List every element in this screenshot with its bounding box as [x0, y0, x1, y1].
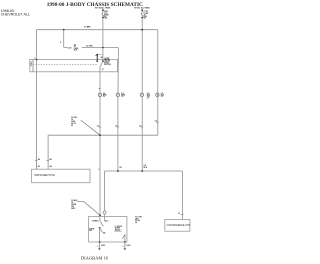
svg-text:C2: C2 [103, 96, 105, 98]
label horn switch [89, 229, 95, 233]
label line3 wire [144, 165, 148, 169]
node feed1 lower dot [102, 17, 104, 19]
relay feed segment [102, 48, 104, 62]
svg-text:B4: B4 [49, 158, 51, 161]
tick line2 C200 [117, 126, 120, 128]
svg-text:8: 8 [34, 58, 35, 60]
svg-text:HOT AT ALL TIMES: HOT AT ALL TIMES [95, 7, 111, 10]
svg-text:B4: B4 [144, 17, 146, 20]
svg-text:C2: C2 [147, 97, 149, 99]
wire switch to ground left [99, 228, 101, 242]
switch contact stub A [99, 216, 101, 220]
relay coil top link [97, 54, 103, 56]
svg-text:86: 86 [101, 57, 103, 59]
wire mid rail y47 [82, 47, 119, 49]
label connector line2 [121, 93, 125, 98]
svg-text:C2: C2 [115, 125, 117, 127]
node switch dot [99, 227, 101, 229]
connector circle line3 [140, 93, 143, 96]
svg-text:CONVENIENCE CTR: CONVENIENCE CTR [167, 224, 191, 227]
connector circle line2 [116, 93, 119, 96]
fuse F1 [102, 13, 104, 17]
relay switch arm [100, 61, 103, 67]
instrument panel fuse block box [33, 59, 117, 71]
node feed1 top dot [102, 9, 104, 11]
label connector line3 [147, 93, 151, 100]
svg-text:C2: C2 [139, 125, 141, 127]
label splice S235 [71, 200, 78, 210]
svg-text:C2: C2 [161, 96, 163, 98]
wire relay output down [99, 67, 101, 216]
svg-text:SW: SW [89, 230, 92, 232]
leader splice S235 [77, 201, 100, 215]
tick wire48 [47, 159, 50, 161]
wire rail left drop to fuse block [36, 30, 38, 60]
tick line1 low [98, 168, 99, 170]
svg-text:G302: G302 [126, 245, 130, 247]
label connector line1 [103, 93, 107, 98]
connector circle line1 [98, 93, 101, 96]
leader splice S234 [81, 120, 100, 135]
svg-text:BLOCK): BLOCK) [104, 64, 111, 66]
svg-text:B1: B1 [120, 167, 122, 169]
wire feed2 down (line3) [141, 18, 143, 171]
switch arm right [122, 235, 125, 239]
fuse F2 value label [144, 11, 149, 19]
connector circle line4 [156, 93, 159, 96]
fuse block dashed bus [33, 64, 98, 66]
wire drop to connector C100 [64, 30, 67, 48]
node relay feed dot [102, 47, 104, 49]
wire ground stub left [98, 242, 100, 248]
svg-text:CHEVROLET ALL: CHEVROLET ALL [1, 13, 30, 17]
wire fuse block inner [36, 60, 38, 72]
wire ground stub right [124, 242, 126, 248]
svg-text:0.8 ORN: 0.8 ORN [86, 46, 93, 48]
svg-text:C100: C100 [67, 48, 71, 50]
label horn relay [101, 57, 112, 71]
fuse F1 value label [104, 11, 109, 19]
ground G302 [124, 248, 127, 250]
wire line4 from rail corner [157, 30, 159, 136]
wire bottom rail right drop [181, 171, 183, 220]
svg-text:S235: S235 [71, 208, 75, 210]
tick relay wire [99, 88, 101, 89]
svg-text:0.8 BRN: 0.8 BRN [84, 27, 91, 29]
wire feed1 to relay [102, 18, 104, 48]
instrument cluster box [32, 169, 90, 183]
svg-text:NORM: NORM [92, 221, 98, 223]
ground G203 [98, 248, 101, 250]
node coil terminal dots [96, 54, 98, 56]
svg-text:87: 87 [102, 69, 104, 71]
node feed2 top dot [141, 9, 143, 11]
svg-text:40: 40 [71, 124, 73, 127]
node line2 end dot [117, 170, 119, 172]
svg-text:G203: G203 [101, 245, 105, 247]
wire top rail [37, 29, 158, 31]
convenience center box [165, 220, 190, 232]
label splice S234 [71, 117, 77, 127]
label connector C100 [60, 42, 79, 51]
node line3 end dot [141, 170, 143, 172]
wire bottom rail left drop [104, 171, 106, 216]
connector circle center box [103, 211, 106, 214]
wire line2 down [117, 48, 120, 171]
svg-text:B4: B4 [50, 165, 52, 168]
fuse F2 [141, 13, 143, 17]
relay coil tick [95, 54, 97, 56]
wire feed1 upper [102, 10, 104, 13]
wire fuse block to cluster [36, 72, 38, 169]
node relay contact dot [102, 60, 104, 62]
svg-text:C2: C2 [121, 96, 123, 98]
svg-text:DIAGRAM 16: DIAGRAM 16 [81, 255, 109, 260]
node feed2 lower dot [141, 17, 143, 19]
wire feed2 upper [141, 10, 143, 13]
svg-text:A6: A6 [38, 165, 40, 168]
wire bottom rail y170 [105, 170, 183, 172]
wire ground rail y135 [48, 134, 158, 136]
node fuse block top pin dot [36, 59, 38, 61]
svg-text:INSTRUMENT PNL: INSTRUMENT PNL [34, 174, 56, 177]
node feed2 rail dot [141, 29, 143, 31]
tick line4 C200 [156, 121, 159, 123]
label connector line4 [161, 93, 165, 98]
fuse block bracket C1 [30, 59, 33, 71]
wire rail drop left [47, 135, 49, 169]
svg-text:C1: C1 [178, 213, 180, 215]
wire right to ground [124, 235, 126, 243]
switch contact stub B [104, 216, 106, 220]
relay coil [97, 55, 98, 61]
label right pair bracket [114, 226, 121, 231]
svg-text:HOT AT ALL TIMES: HOT AT ALL TIMES [134, 7, 150, 10]
label right pair [115, 228, 121, 232]
svg-text:C2: C2 [97, 125, 99, 127]
switch arm lower [100, 228, 103, 233]
svg-text:28: 28 [135, 222, 137, 224]
node splice dot line1 [99, 134, 101, 136]
svg-text:C4: C4 [155, 120, 157, 123]
svg-text:B2: B2 [103, 232, 105, 234]
multifunction switch box [89, 216, 127, 242]
tick wire36 [35, 159, 38, 161]
label convenience center note [135, 216, 143, 224]
tick line1 C200 [99, 126, 102, 128]
switch arm upper [100, 221, 103, 227]
node box bottom dots [99, 241, 101, 243]
svg-text:A6: A6 [38, 158, 40, 161]
tick right box entry [181, 213, 184, 215]
node line1 end dot [99, 214, 101, 216]
node rail junction dot [63, 29, 65, 31]
tick line3 C200 [141, 126, 144, 128]
